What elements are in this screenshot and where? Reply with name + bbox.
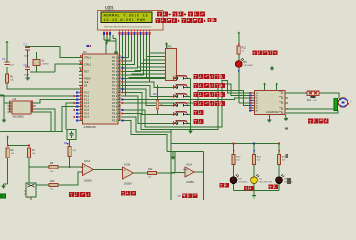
svg-text:P2.0: P2.0	[112, 84, 118, 88]
svg-text:P0.5: P0.5	[112, 73, 118, 77]
svg-text:P2.5: P2.5	[112, 101, 118, 105]
svg-text:10uF: 10uF	[9, 65, 15, 67]
svg-text:P0.4: P0.4	[112, 70, 118, 74]
svg-text:12V: 12V	[313, 100, 317, 102]
svg-text:NORMAL T:25|C 13: NORMAL T:25|C 13	[104, 13, 149, 18]
svg-text:+: +	[124, 169, 126, 173]
svg-text:10k: 10k	[50, 189, 53, 191]
svg-text:30pF: 30pF	[24, 75, 30, 77]
svg-text:LM016L: LM016L	[105, 8, 115, 12]
svg-text:C3: C3	[2, 57, 6, 61]
svg-text:LED-RED: LED-RED	[239, 181, 248, 183]
svg-text:XTAL2: XTAL2	[84, 64, 92, 67]
svg-text:P3.0: P3.0	[112, 112, 118, 116]
svg-text:13:13 W:20l PWM: 13:13 W:20l PWM	[104, 18, 146, 23]
svg-text:P1.7: P1.7	[84, 116, 90, 119]
svg-text:RV1: RV1	[153, 93, 158, 96]
svg-text:EA: EA	[84, 85, 88, 88]
svg-text:10k: 10k	[50, 171, 53, 173]
svg-text:12MHZ: 12MHZ	[42, 64, 50, 66]
svg-text:P0.2: P0.2	[112, 63, 118, 67]
svg-text:U5:A: U5:A	[186, 163, 192, 167]
svg-text:C2: C2	[24, 63, 28, 67]
svg-text:P3.1: P3.1	[112, 115, 118, 119]
svg-text:RL1: RL1	[307, 99, 312, 102]
svg-text:VSS VDD VEE RS RW E D0 D1 D2 D: VSS VDD VEE RS RW E D0 D1 D2 D3 D4 D5 D6…	[104, 26, 152, 28]
svg-text:P0.6: P0.6	[112, 77, 118, 81]
svg-text:30pF: 30pF	[24, 56, 30, 58]
svg-text:P3.2: P3.2	[112, 119, 118, 123]
svg-text:+: +	[84, 165, 86, 169]
svg-text:U3:B: U3:B	[124, 163, 130, 167]
svg-text:P0.1: P0.1	[112, 59, 118, 63]
svg-text:U3:A: U3:A	[84, 159, 90, 163]
svg-text:LM358: LM358	[186, 181, 194, 184]
svg-text:C1: C1	[24, 42, 28, 46]
svg-text:RST: RST	[84, 71, 89, 74]
svg-text:P2.4: P2.4	[112, 98, 118, 102]
svg-text:XTAL1: XTAL1	[84, 57, 92, 60]
svg-text:P0.7: P0.7	[112, 80, 118, 84]
svg-text:+: +	[186, 168, 188, 172]
svg-text:P0.0: P0.0	[112, 56, 118, 60]
svg-text:ADC0832: ADC0832	[13, 115, 25, 119]
svg-text:-: -	[84, 171, 85, 175]
svg-text:10k: 10k	[148, 177, 151, 179]
svg-text:-: -	[124, 175, 125, 179]
svg-text:R11: R11	[242, 47, 247, 50]
svg-text:P2.7: P2.7	[112, 108, 118, 112]
svg-text:AT89C52: AT89C52	[84, 125, 97, 129]
svg-text:LED-RED: LED-RED	[244, 65, 254, 67]
svg-text:LM324: LM324	[124, 183, 132, 186]
svg-text:U2: U2	[13, 97, 17, 101]
svg-text:ULN2003A: ULN2003A	[266, 110, 279, 114]
svg-text:P2.2: P2.2	[112, 91, 118, 95]
svg-text:LM324: LM324	[84, 180, 92, 183]
svg-text:-: -	[350, 105, 351, 108]
svg-text:P2.6: P2.6	[112, 105, 118, 109]
svg-text:LED-YELLOW: LED-YELLOW	[259, 182, 272, 184]
svg-text:P2.1: P2.1	[112, 87, 118, 91]
svg-text:P0.3: P0.3	[112, 66, 118, 70]
svg-text:R12: R12	[148, 168, 153, 171]
svg-text:-: -	[186, 173, 187, 177]
svg-text:U1: U1	[83, 50, 87, 54]
svg-text:P2.3: P2.3	[112, 94, 118, 98]
svg-text:R10: R10	[50, 180, 55, 183]
